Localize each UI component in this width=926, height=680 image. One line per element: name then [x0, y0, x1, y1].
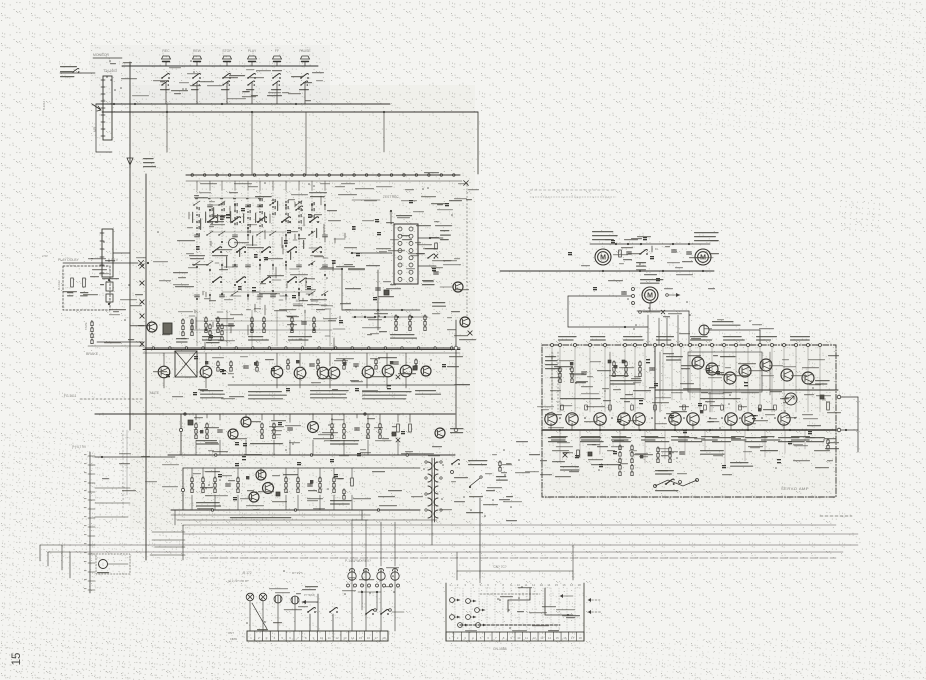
matrix column wire [221, 190, 223, 310]
svg-text:FL: FL [655, 247, 659, 251]
label texture [428, 441, 530, 521]
svg-text:PLAY DOLBY: PLAY DOLBY [58, 258, 80, 262]
leaf switch SW-FF [271, 73, 281, 90]
svg-text:11: 11 [524, 583, 527, 587]
servo bus label [581, 436, 600, 441]
leaf switch SW-STOP [221, 73, 231, 90]
wire to J [440, 286, 453, 288]
label texture 2 [605, 236, 701, 289]
matrix column parts [218, 201, 225, 297]
junction [251, 111, 253, 113]
connector bowtie on bus [140, 342, 144, 346]
transistor Q-1619 [421, 366, 431, 376]
fuse switch [451, 459, 460, 473]
matrix rotated label [277, 201, 278, 211]
svg-text:M: M [600, 255, 606, 262]
lower matrix band cluster C [288, 317, 315, 341]
motor3 left wire [568, 296, 631, 327]
arrow into connector [92, 104, 101, 111]
junction [166, 111, 168, 113]
row2 labels2 [250, 443, 283, 444]
transistor Q166 [328, 367, 340, 379]
row3 label REC PB [230, 517, 291, 518]
matrix column wire [285, 190, 287, 310]
wire REC button to rail [165, 62, 167, 67]
svg-text:18: 18 [579, 636, 583, 640]
servo transistor Q175 [669, 413, 681, 425]
relay contact [475, 608, 485, 613]
servo top label [690, 336, 712, 341]
CN step wire 2 [545, 588, 573, 615]
matrix rotated label [316, 228, 317, 238]
CN dotted columns [455, 588, 575, 630]
power transformer T-1601 [428, 458, 438, 522]
svg-text:13: 13 [343, 636, 347, 640]
lower matrix band cluster A [202, 317, 233, 341]
servo inner hline [655, 389, 838, 391]
label texture [102, 257, 151, 340]
switch S-2 [329, 607, 338, 631]
label texture [663, 313, 774, 339]
R-172 labels [228, 571, 302, 583]
servo meter circle [785, 393, 797, 405]
capstan motor M-1601 [595, 249, 611, 265]
svg-text:(A,L) 9? OR R?: (A,L) 9? OR R? [228, 579, 249, 583]
servo top label [558, 336, 577, 341]
CN-1588 feed wires [457, 545, 573, 583]
transistor Q168 [382, 365, 394, 377]
motor top wire [590, 243, 710, 245]
diode on bus [127, 158, 133, 165]
bowtie on bus right [464, 181, 469, 186]
servo main bus [542, 429, 836, 431]
svg-text:12: 12 [335, 636, 339, 640]
scan fog center [130, 85, 475, 530]
label texture [465, 587, 580, 631]
motor switch [636, 249, 648, 266]
dashed box lamp [96, 554, 130, 574]
svg-text:18: 18 [578, 583, 582, 587]
svg-text:17: 17 [375, 636, 379, 640]
amp bus with bumps [145, 347, 460, 349]
transistor Q164 [294, 367, 306, 379]
matrix column wire [272, 190, 274, 310]
head symbol [229, 239, 238, 248]
COUNTER label [60, 66, 77, 77]
svg-text:13: 13 [540, 636, 544, 640]
svg-text:16: 16 [367, 636, 371, 640]
solenoid pin row [347, 584, 400, 587]
matrix-amp vertical wire [304, 310, 306, 346]
junction [383, 111, 385, 113]
servo zigzag wire [655, 480, 697, 486]
servo transistor U6 [802, 372, 814, 384]
row3 bottom wire [171, 509, 420, 511]
rotary switch contact [261, 277, 271, 283]
matrix vertical text chain [196, 207, 200, 236]
meter lamp ML-1 [274, 595, 282, 603]
solenoid PL-2 [362, 568, 370, 580]
FL mark [652, 246, 659, 252]
servo inner verticals [610, 352, 770, 412]
junction [147, 262, 149, 264]
svg-text:10: 10 [517, 636, 521, 640]
relay contact [466, 615, 476, 620]
servo top label [656, 336, 674, 341]
servo transistor U7 [706, 363, 718, 375]
CN step wire 1 [508, 588, 530, 612]
matrix hwire2 [210, 231, 286, 233]
row2 top wire main [181, 413, 423, 415]
matrix vertical text chain [259, 198, 263, 227]
servo feed verticals [648, 315, 678, 345]
servo transistor Q178 [742, 413, 754, 425]
servo top label [590, 336, 606, 341]
component block [106, 279, 113, 305]
counter wire [60, 72, 95, 74]
svg-text:R-1412: R-1412 [57, 280, 61, 290]
long bus 5 [200, 557, 836, 559]
resistor pair [182, 319, 184, 336]
strip label CN-1589 [228, 631, 237, 641]
wire h269 [320, 268, 343, 270]
matrix column parts [231, 204, 238, 296]
lower matrix band wire [190, 329, 332, 331]
vertical feed wires [167, 104, 384, 175]
row1 labels5 [415, 390, 441, 395]
matrix vertical text chain [298, 201, 302, 230]
leaf switch SW-REW [191, 73, 201, 90]
bus drops [210, 181, 312, 190]
junction [221, 103, 223, 105]
label texture [257, 567, 399, 630]
matrix rotated label [252, 236, 253, 247]
head label [712, 321, 741, 326]
reel motor label [694, 232, 719, 241]
servo bottom switch [665, 479, 681, 485]
matrix column parts [269, 201, 276, 297]
matrix column parts [321, 204, 328, 296]
cluster labels2 [432, 302, 446, 307]
svg-text:FG-1611: FG-1611 [64, 394, 77, 398]
matrix column wire [247, 190, 249, 310]
REC pushbutton [162, 56, 171, 62]
left terminal strip [84, 452, 95, 593]
matrix junction dots [196, 202, 326, 300]
row3 comps3 [276, 478, 353, 499]
svg-text:B-1612: B-1612 [42, 101, 46, 110]
STOP pushbutton [223, 56, 232, 62]
long bus hooks [40, 545, 70, 566]
motor bus [500, 270, 714, 272]
connector bowtie on bus [140, 300, 144, 304]
IC connector box [394, 224, 418, 284]
matrix-amp vertical wire [226, 310, 228, 346]
amp bus core2 [143, 349, 460, 351]
faint dash line B [530, 196, 616, 198]
matrix vertical text chain [234, 203, 238, 225]
motor3 right pin [666, 293, 680, 297]
servo under-bus labels full [548, 437, 825, 442]
matrix column wire [259, 190, 261, 310]
servo transistor Q179 [778, 413, 790, 425]
CN-1588 header numbers [449, 583, 581, 587]
polarity pair marks [166, 200, 812, 500]
servo transistor Q171 [566, 413, 578, 425]
resistor label [67, 292, 73, 296]
matrix-amp vertical wire [196, 310, 198, 346]
servo pot labels [655, 490, 678, 491]
servo lower verticals [560, 430, 805, 465]
leaf switch SW-PLAY [246, 73, 256, 90]
servo bus label [641, 436, 658, 441]
pilot lamp PL-2 [259, 593, 267, 601]
resistor pair2 [191, 319, 193, 336]
matrix vertical label2 [192, 212, 193, 223]
left drop wire [95, 104, 97, 152]
label texture [545, 353, 841, 428]
servo transistor Q173 [618, 413, 630, 425]
label texture [200, 183, 468, 190]
wire h310 [342, 309, 420, 311]
servo cluster2 [655, 447, 684, 475]
SAVE CAL SW label [143, 158, 156, 167]
matrix column parts [256, 205, 263, 297]
row1 labels3 [310, 390, 349, 398]
matrix rotated label [213, 207, 214, 219]
svg-text:17: 17 [570, 583, 574, 587]
matrix vertical label [195, 198, 198, 199]
transistor Q163 [271, 366, 283, 378]
rotary switch contact [281, 217, 291, 223]
matrix vertical label [246, 198, 249, 199]
servo transistor U5 [781, 369, 793, 381]
IC connector pins [398, 227, 413, 281]
relay contact [450, 615, 460, 620]
meter lamp ML-2 [291, 596, 299, 604]
svg-text:14: 14 [547, 583, 551, 587]
matrix column wire [196, 190, 198, 310]
bottom edge speckle [0, 640, 926, 680]
transistor Q-1621 [241, 417, 251, 427]
matrix column parts [193, 201, 200, 297]
label texture [581, 240, 719, 289]
transistor Q169 [400, 365, 412, 377]
servo internal verticals [552, 347, 820, 412]
resistor cluster B [409, 315, 411, 331]
servo upper box [688, 352, 762, 392]
row1 stubs [164, 353, 406, 366]
transistor Q167 [362, 366, 374, 378]
svg-text:MR: MR [93, 126, 97, 132]
rotary switch contact [287, 277, 297, 283]
solenoid PL-1 [348, 568, 356, 580]
rotary switch contact [312, 247, 322, 253]
solenoid junctions [358, 591, 381, 593]
junction dot texture [101, 60, 825, 629]
row3 left vertical [182, 468, 184, 510]
connector bowtie on bus [140, 264, 144, 268]
transistor Q161 [158, 366, 170, 378]
solenoid feed wires [352, 520, 437, 568]
matrix label row [255, 196, 272, 197]
lower matrix band wire2 [196, 320, 336, 322]
matrix column wire [209, 190, 211, 310]
matrix vertical label [208, 198, 211, 199]
capstan motor label [592, 231, 618, 240]
servo transistor U4 [760, 359, 772, 371]
matrix vertical label [233, 198, 236, 199]
servo resistor ladder [619, 445, 633, 476]
labels [422, 280, 435, 285]
transistor Q-1623 [308, 422, 319, 433]
wire SW-STOP down [226, 82, 228, 104]
long bus 4 [70, 551, 843, 553]
arrow mark [302, 594, 318, 631]
row2 comps [195, 423, 275, 439]
svg-text:M: M [647, 293, 653, 300]
label texture [153, 192, 476, 341]
matrix rotated label [239, 248, 240, 257]
main bus with connector bumps [186, 174, 460, 176]
faint dash line A [530, 189, 616, 191]
servo left dashes [552, 352, 558, 412]
svg-text:11: 11 [525, 636, 528, 640]
dark component [384, 290, 389, 295]
svg-text:11: 11 [328, 636, 331, 640]
wire [88, 345, 143, 347]
top rail wire [122, 65, 318, 67]
lower matrix band cluster B [248, 317, 269, 341]
switch S-1 [307, 607, 316, 631]
svg-text:CN? 7C?: CN? 7C? [493, 565, 506, 569]
solenoid PL-3 [377, 568, 385, 580]
main bus lower [186, 180, 462, 182]
motor3 pins [622, 288, 635, 305]
rotary switch contact [212, 247, 222, 253]
components right of IC [434, 243, 439, 274]
transistor Q-1630 [435, 428, 445, 438]
resistor 2 [83, 278, 86, 287]
cluster labels [390, 334, 417, 339]
transformer bottom wire [432, 498, 480, 578]
connector CN-1605 [100, 229, 113, 277]
servo block border [542, 345, 836, 497]
connector CN-1603 [101, 76, 112, 140]
servo transistor U1 [692, 357, 704, 369]
servo bus label [551, 436, 568, 441]
CN top wire [457, 571, 573, 580]
matrix vertical text chain [247, 204, 251, 233]
servo transistor Q177 [725, 413, 737, 425]
matrix vertical text chain [272, 199, 276, 215]
matrix label row [310, 196, 325, 197]
terminal wire 1 [95, 456, 175, 458]
wire SW-REW down [196, 82, 198, 104]
rotary switch contact [236, 247, 246, 253]
matrix vertical text chain [209, 208, 213, 224]
label texture [194, 417, 434, 456]
transistor Q-1622 [228, 429, 238, 439]
row3 to bus verticals [175, 510, 362, 525]
row2 top wire [95, 413, 455, 415]
servo divider [654, 347, 656, 430]
row2 labels [196, 440, 219, 445]
svg-text:14: 14 [548, 636, 552, 640]
row3 stubs down [192, 495, 352, 510]
right small cluster [496, 461, 508, 481]
motor3 lower pins [639, 310, 665, 314]
terminal wire 2 [95, 487, 130, 489]
rotary switch contact [257, 217, 267, 223]
CN dash row [460, 624, 560, 626]
junction [134, 103, 136, 105]
servo left cluster [545, 356, 586, 383]
svg-text:12: 12 [532, 583, 536, 587]
servo row caps [561, 405, 777, 410]
row1 labels4 [362, 391, 412, 399]
terminal wire 4 [95, 516, 128, 518]
svg-text:15: 15 [11, 653, 23, 666]
matrix vertical label [220, 198, 223, 199]
label texture [193, 471, 423, 510]
servo top label [623, 336, 644, 341]
CN arrows right [588, 598, 600, 602]
CN-1588 strip numbers [449, 636, 582, 640]
resistor [71, 278, 74, 287]
servo bus label [791, 436, 810, 441]
relay contact [476, 623, 486, 628]
fast motor M-1603 [642, 287, 658, 303]
label texture 2 [383, 211, 452, 289]
transistor Q-1617 [460, 317, 470, 327]
label texture 2 [525, 406, 554, 475]
relay contact [450, 598, 460, 603]
svg-text:CN?: CN? [228, 631, 234, 635]
dense speckle top-right [700, 0, 926, 130]
resistor cluster C [424, 315, 426, 331]
AMP label [100, 284, 104, 285]
dense speckle right-mid patch [840, 200, 880, 232]
pilot lamp circle [97, 560, 128, 574]
H marks [608, 360, 625, 363]
row3 comps2 [285, 477, 335, 493]
svg-text:18: 18 [382, 636, 386, 640]
amp bus 2 [143, 352, 460, 354]
label texture [153, 356, 470, 399]
svg-text:TAPE: TAPE [84, 322, 88, 330]
rotary switch contact [261, 247, 271, 253]
rotary switch contact [212, 277, 222, 283]
matrix vertical label2 [243, 213, 244, 223]
row1 labels [200, 390, 225, 398]
IC box CN-1606 label [396, 215, 412, 216]
transistor Q-1625 [263, 483, 274, 494]
matrix vertical text chain [285, 200, 289, 223]
solenoid drop wires [352, 581, 395, 631]
matrix column parts [295, 201, 302, 300]
servo row dots [559, 417, 796, 419]
long bus 3 [62, 544, 858, 546]
switch S-4 [380, 609, 404, 615]
label texture 2 [454, 463, 513, 513]
wire under motor3 [637, 303, 689, 345]
servo bottom dash [820, 515, 852, 517]
matrix column parts [308, 204, 315, 296]
row2 comps3 [392, 424, 411, 442]
matrix rotated label [264, 212, 265, 222]
bus rail B [102, 111, 478, 113]
